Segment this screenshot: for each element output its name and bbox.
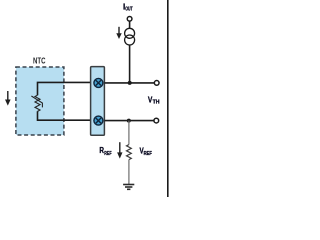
wire: thermistor bottom to connector (bottom wire left) <box>38 111 91 120</box>
thermistor RT (NTC) <box>31 95 42 111</box>
wire: connector to V_REF terminal (bottom wire right) <box>104 120 154 122</box>
connector contact (bottom) <box>94 116 103 125</box>
ground <box>123 185 134 190</box>
svg-text:NTC: NTC <box>33 56 46 66</box>
wire: terminal to current source <box>129 21 131 28</box>
NTC thermistor block (dashed box) <box>16 67 64 135</box>
wire: node to resistor R_REF <box>128 121 130 145</box>
terminal V_TH <box>154 81 159 86</box>
current source I_OUT (two overlapping circles) <box>125 28 135 45</box>
connector block J1 <box>91 67 105 136</box>
wire: resistor to ground <box>128 160 130 185</box>
arrow: NTC current direction (left of box) <box>5 91 11 106</box>
terminal I_OUT <box>127 16 132 21</box>
connector contact (top) <box>94 78 103 87</box>
arrow: current through R_REF <box>117 142 122 158</box>
wire: thermistor top to connector (top wire left) <box>38 82 91 95</box>
wire: connector to V_TH terminal (top wire right) <box>104 82 154 84</box>
figure right border <box>167 0 169 197</box>
wire: current source to V_TH node <box>129 45 131 83</box>
resistor R_REF <box>126 145 131 160</box>
junction: V_TH node <box>128 81 132 85</box>
svg-text:OUT: OUT <box>125 6 133 12</box>
svg-text:REF: REF <box>144 151 152 157</box>
svg-text:TH: TH <box>153 100 160 106</box>
svg-text:REF: REF <box>104 151 111 157</box>
arrow: current source direction <box>116 27 121 39</box>
terminal V_REF <box>154 118 159 123</box>
junction: V_REF node <box>127 119 131 123</box>
